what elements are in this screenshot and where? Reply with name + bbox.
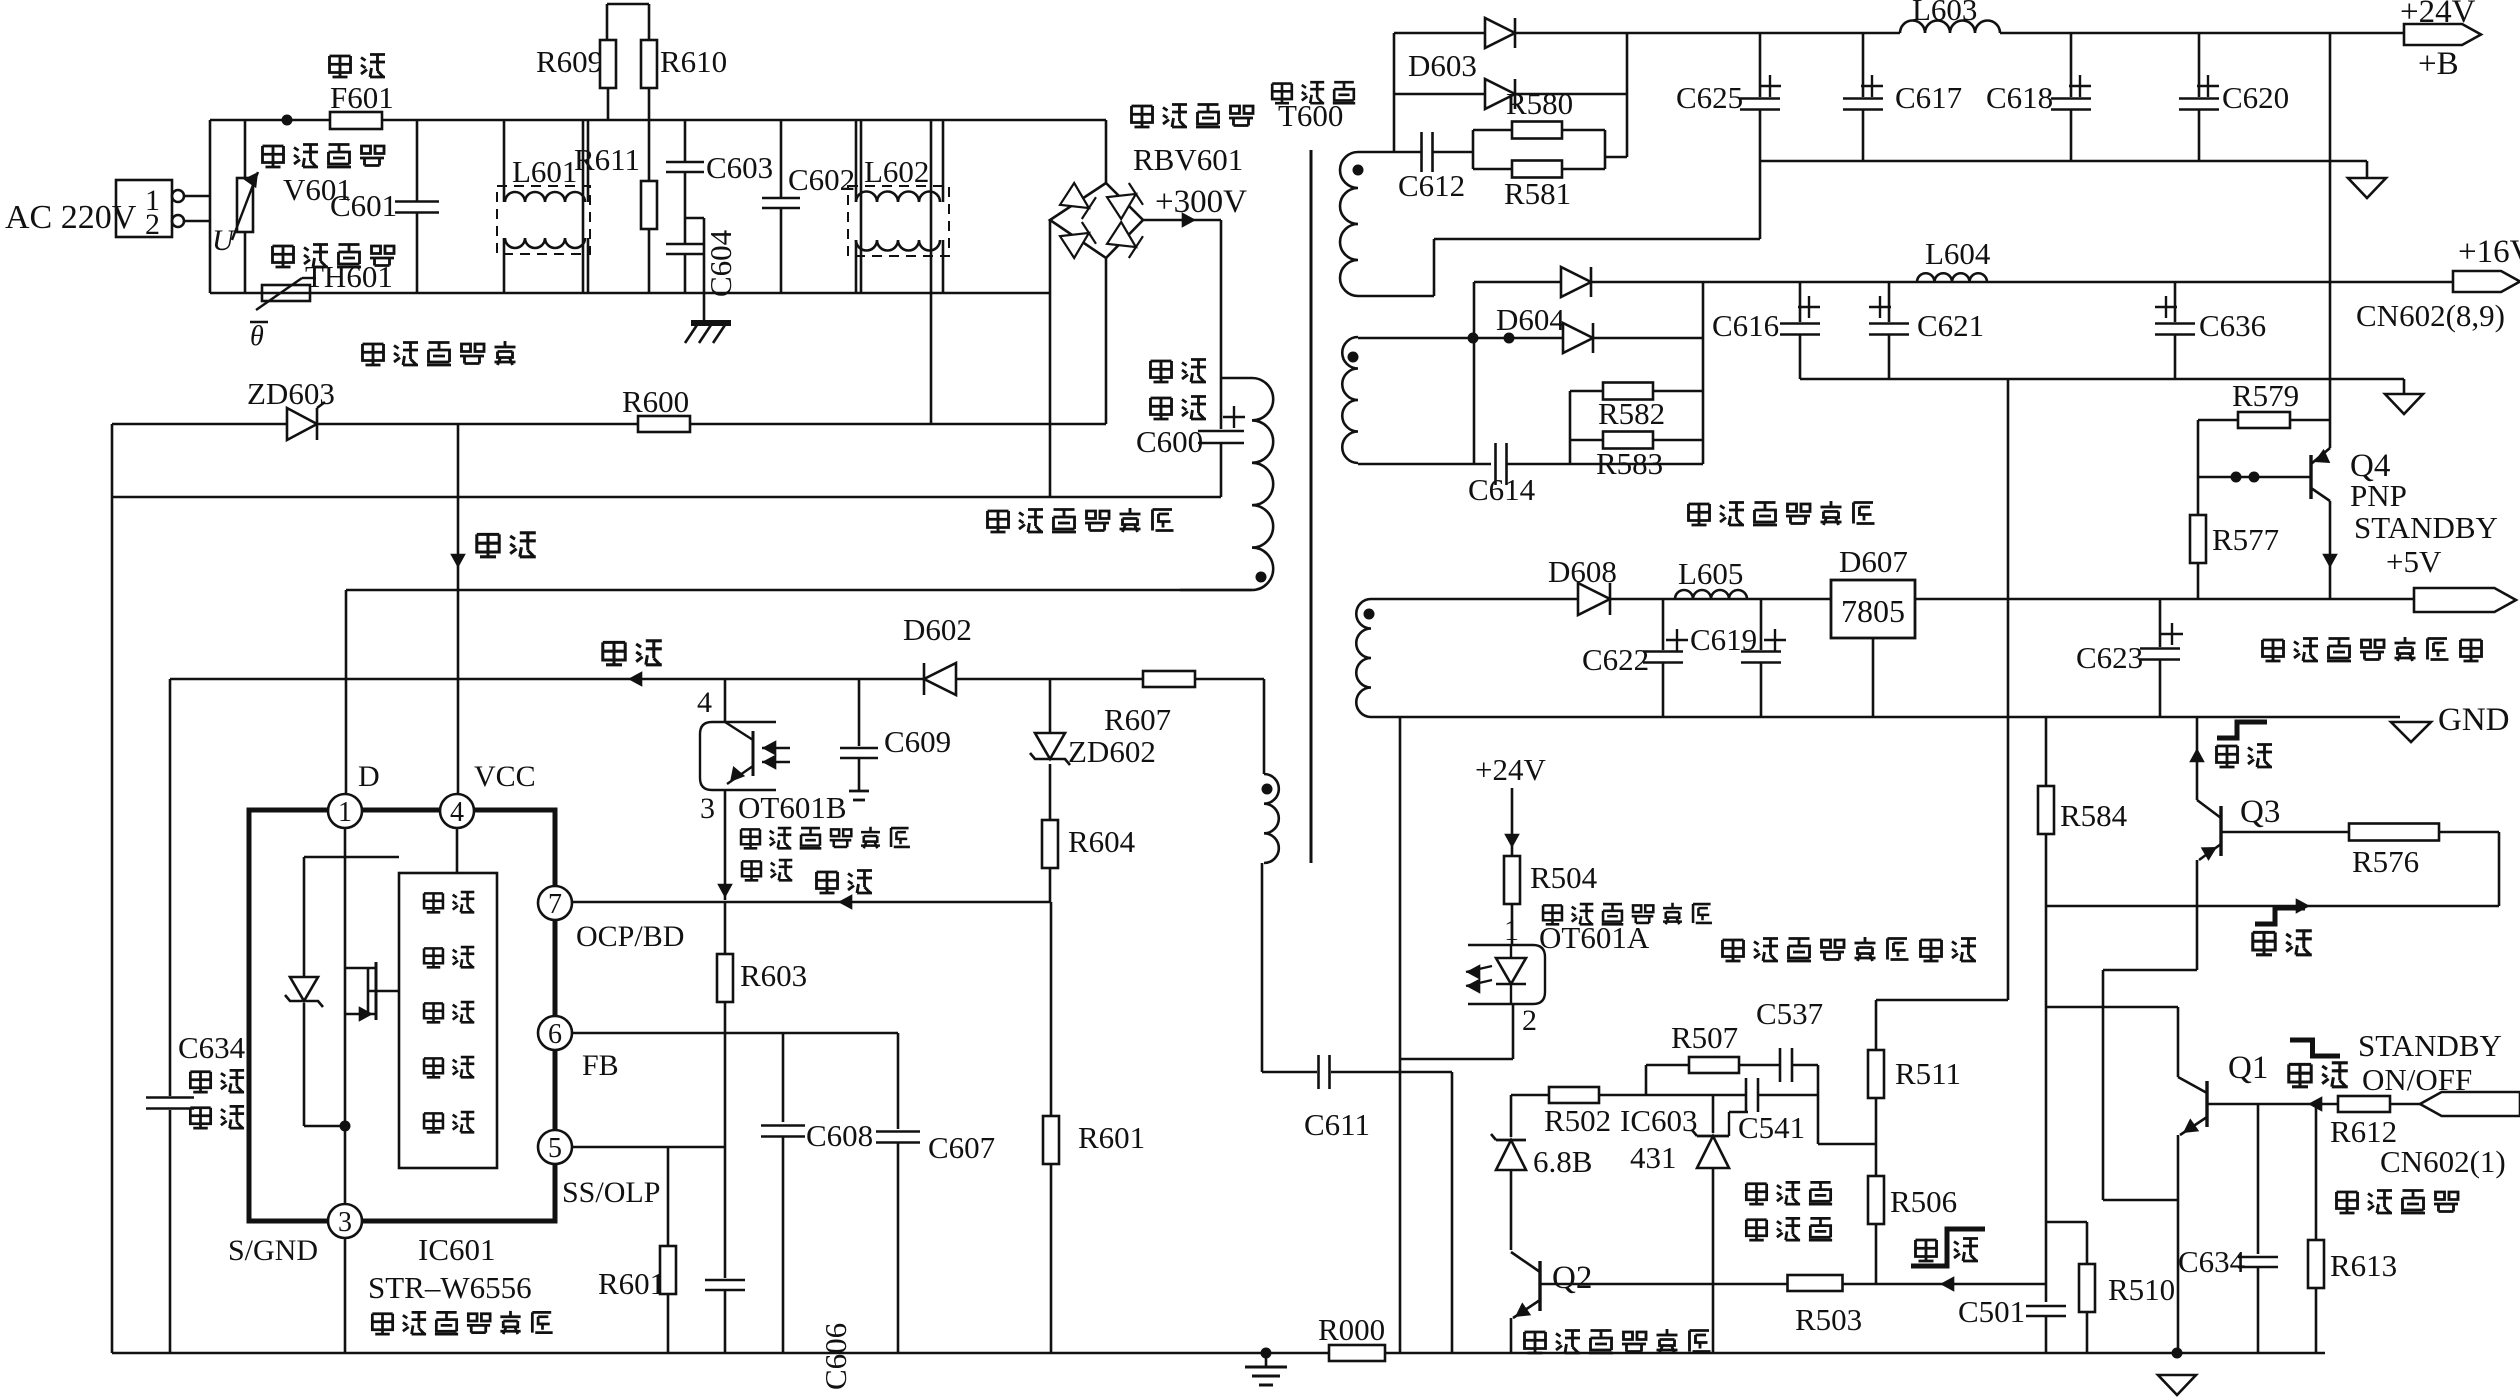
svg-text:VCC: VCC (474, 760, 536, 793)
wire bridge top feed (1105, 120, 1108, 183)
label 开关 R503 (1911, 1229, 1985, 1266)
capacitor C541 (1738, 1078, 1805, 1145)
label 取样误 差放大 (1746, 1182, 1832, 1240)
svg-text:R576: R576 (2352, 844, 2419, 879)
resistor R506 (1868, 1176, 1957, 1283)
resistor R503 (1788, 1275, 1863, 1337)
varistor V601 (232, 120, 258, 293)
svg-text:R603: R603 (740, 958, 807, 993)
resistor R603 (717, 902, 807, 1033)
svg-text:+24V: +24V (1475, 752, 1546, 787)
IC601 internal wires (304, 828, 457, 1204)
wire bridge out +300V (1143, 212, 1221, 228)
inductor L601 common mode choke (497, 120, 590, 293)
wire +300V down (1220, 220, 1223, 429)
resistor R601 right (1043, 902, 1145, 1353)
capacitor C600 (1136, 406, 1245, 497)
svg-text:CN602(1): CN602(1) (2380, 1144, 2506, 1179)
resistor R511 (1868, 1000, 1961, 1176)
svg-text:OCP/BD: OCP/BD (576, 920, 684, 953)
svg-text:FB: FB (582, 1049, 619, 1082)
svg-text:R609: R609 (536, 44, 603, 79)
junction dot Q1 emitter gnd (2172, 1348, 2183, 1359)
svg-text:+B: +B (2418, 46, 2459, 82)
label 二次整流滤波 (1689, 501, 1875, 525)
capacitor C501 (1958, 1294, 2066, 1353)
transistor Q3 (2197, 794, 2280, 970)
label 启动 (477, 533, 536, 557)
IC601 pin 4 (440, 760, 536, 828)
svg-text:C634: C634 (178, 1030, 246, 1065)
connector CN602(1) (2380, 1092, 2520, 1179)
svg-text:C614: C614 (1468, 472, 1536, 507)
svg-text:S/GND: S/GND (228, 1234, 318, 1267)
svg-text:SS/OLP: SS/OLP (562, 1176, 660, 1209)
svg-text:C602: C602 (788, 162, 855, 197)
svg-text:C604: C604 (703, 229, 738, 297)
svg-text:L604: L604 (1925, 236, 1991, 271)
connector +24V +B (2400, 0, 2481, 82)
svg-text:7: 7 (548, 889, 562, 920)
wire D603 left vertical (1393, 33, 1396, 152)
wire R609 R610 top link (607, 4, 649, 40)
svg-text:ZD602: ZD602 (1068, 734, 1156, 769)
svg-text:R506: R506 (1890, 1184, 1957, 1219)
svg-text:C603: C603 (706, 150, 773, 185)
capacitor C636 (2155, 282, 2266, 379)
resistor R610 (641, 40, 727, 181)
label OT601B (738, 790, 847, 825)
wire R510 branch (2046, 1222, 2087, 1264)
svg-text:T600: T600 (1278, 98, 1343, 133)
label D604 (1496, 302, 1565, 337)
capacitor C604 (666, 218, 704, 320)
wire Q3 emitter path (2103, 970, 2197, 1200)
svg-text:STANDBY: STANDBY (2358, 1028, 2502, 1063)
wire +24V rail y33 (1627, 32, 2404, 35)
wire supply line y679 (170, 671, 1264, 687)
svg-text:C541: C541 (1738, 1110, 1805, 1145)
fuse F601 (330, 80, 394, 129)
svg-text:R577: R577 (2212, 522, 2279, 557)
label 开关 mid (2253, 908, 2312, 955)
label 滤波电容 (1151, 360, 1207, 420)
svg-text:D604: D604 (1496, 302, 1565, 337)
svg-text:C618: C618 (1986, 80, 2053, 115)
inductor L602 common mode choke (848, 120, 949, 293)
wire D604 left vertical (1473, 282, 1476, 464)
wire y1007 link (2046, 1006, 2178, 1009)
transformer secondary winding 2 (1342, 337, 1358, 463)
wire x346 down to IC pin1 (345, 590, 348, 795)
diode D604 lower (1358, 323, 1703, 353)
ground triangle 16V section (2385, 394, 2423, 414)
wire w1 bottom return (1358, 161, 1760, 296)
resistor R600 (622, 384, 690, 432)
wire left bus x112 (111, 424, 114, 1353)
svg-text:Q3: Q3 (2240, 794, 2280, 830)
wire y424 line (112, 423, 1106, 426)
wire OCP line y902 (571, 894, 1051, 910)
capacitor C616 (1712, 282, 1820, 379)
junction dot bottom gnd (1261, 1348, 1272, 1359)
svg-text:TH601: TH601 (305, 259, 393, 294)
svg-text:C623: C623 (2076, 640, 2143, 675)
IC601 internal zener (285, 977, 323, 1007)
label 待机控制 (2337, 1191, 2459, 1214)
svg-text:C600: C600 (1136, 424, 1203, 459)
svg-text:1: 1 (1504, 914, 1519, 947)
svg-text:R604: R604 (1068, 824, 1136, 859)
label +300V (1155, 184, 1247, 220)
wire OT601A pin2 (1400, 1004, 1513, 1059)
label 电源厚膜电路 (372, 1311, 552, 1334)
svg-text:R601: R601 (1078, 1120, 1145, 1155)
capacitor C619 (1666, 599, 1786, 717)
label 稳压 (742, 860, 792, 880)
transformer core (1310, 150, 1313, 863)
svg-text:R584: R584 (2060, 798, 2128, 833)
transistor Q2 (1511, 1252, 1592, 1353)
wire FB line y1033 (571, 1032, 898, 1035)
IC601 inner block (399, 873, 497, 1168)
capacitor C606 (705, 1280, 853, 1390)
resistor R612 (2330, 1096, 2397, 1149)
label D603 (1408, 48, 1477, 83)
wire R507 line y1065 (1646, 1065, 1818, 1095)
inductor L603 (1900, 0, 2000, 33)
label V601 (283, 172, 352, 207)
svg-text:431: 431 (1630, 1140, 1677, 1175)
svg-text:IC601: IC601 (418, 1232, 496, 1267)
junction dot fuse node (282, 115, 293, 126)
IC601 pin 3 (228, 1204, 362, 1267)
IC601 pin 7 (538, 886, 684, 953)
svg-text:C621: C621 (1917, 308, 1984, 343)
diode D603 lower (1394, 79, 1627, 109)
svg-text:4: 4 (697, 686, 712, 719)
svg-text:R502: R502 (1544, 1103, 1611, 1138)
label 开关 Q3 top (2217, 722, 2273, 767)
capacitor C621 (1869, 282, 1984, 379)
wire Q2 base line y1283 (1540, 1276, 2046, 1292)
wire startup x458 (450, 424, 466, 795)
IC601 pin3 down (344, 1238, 347, 1353)
svg-text:R507: R507 (1671, 1020, 1738, 1055)
capacitor C634 right (2178, 1104, 2278, 1353)
wire x1627 vertical (1626, 33, 1629, 157)
label IC603 431 (1620, 1103, 1698, 1175)
bridge rectifier RBV601 (1050, 105, 1253, 259)
wire +16V lower rail y379 (1800, 379, 2404, 394)
resistor R613 (2308, 1104, 2397, 1353)
capacitor C634 left (146, 1030, 246, 1128)
label 待机副电源切换 (2263, 637, 2482, 661)
IC601 pin 1 (328, 760, 380, 828)
label 稳压光耦合器 A (1543, 903, 1712, 925)
svg-text:D603: D603 (1408, 48, 1477, 83)
wire y497 return (112, 496, 1221, 499)
wire AC pins to bus (184, 120, 210, 293)
svg-text:L605: L605 (1678, 556, 1743, 591)
label pin2 OT601A (1522, 1004, 1537, 1037)
svg-text:R579: R579 (2232, 378, 2299, 413)
svg-text:L602: L602 (864, 154, 929, 189)
IC601 pin 6 (538, 1016, 619, 1082)
wire box to x1627 (1605, 156, 1627, 159)
label fuse 熔丝 (330, 55, 386, 78)
label U (212, 224, 236, 257)
capacitor C601 (330, 120, 439, 293)
svg-text:C607: C607 (928, 1130, 995, 1165)
resistor R502 (1544, 1087, 1611, 1138)
label 市电整流滤波 (988, 508, 1174, 532)
wire Q3 collector (2189, 717, 2205, 800)
ground triangle 24V section (2348, 178, 2386, 198)
svg-text:D607: D607 (1839, 544, 1908, 579)
wire GND rail y717 (1371, 716, 2400, 719)
resistor R580 box (1473, 86, 1605, 178)
svg-text:R511: R511 (1895, 1056, 1961, 1091)
label STANDBY ON/OFF (2358, 1028, 2502, 1097)
resistor R581 label (1504, 176, 1571, 211)
capacitor C620 (2179, 33, 2289, 161)
svg-text:RBV601: RBV601 (1133, 142, 1243, 177)
wire +24V lower rail y161 (1760, 161, 2367, 178)
wire x725 mid (724, 1033, 727, 1278)
wire +5V line y599 (1371, 598, 2414, 601)
label 抗干扰电路 (363, 341, 516, 365)
resistor R504 (1504, 788, 1598, 945)
resistor R582 (1570, 383, 1703, 441)
label 反馈 (817, 871, 873, 894)
transformer aux winding (1262, 679, 1279, 1072)
label STANDBY +5V (2354, 510, 2498, 579)
inductor L605 (1675, 556, 1747, 599)
svg-text:R600: R600 (622, 384, 689, 419)
resistor R000 (1318, 1312, 1385, 1361)
svg-text:C634: C634 (2178, 1244, 2246, 1279)
connector +16V (2356, 234, 2520, 333)
svg-text:3: 3 (700, 792, 715, 825)
svg-text:C608: C608 (806, 1118, 873, 1153)
resistor R611 (574, 142, 657, 293)
transistor Q4 (2311, 448, 2407, 599)
svg-text:C612: C612 (1398, 168, 1465, 203)
ground small C609 (849, 791, 869, 800)
label 压敏电阻 (263, 145, 385, 168)
svg-text:R601: R601 (598, 1266, 665, 1301)
diode D603 upper (1394, 18, 1627, 48)
svg-text:IC603: IC603 (1620, 1103, 1698, 1138)
wire x1452 down (1451, 1072, 1454, 1353)
svg-text:OT601A: OT601A (1539, 920, 1650, 955)
resistor R607 (1104, 671, 1195, 737)
IC601 internal mosfet (345, 962, 399, 1022)
resistor R577 (2190, 420, 2279, 599)
wire bottom rail y293 (210, 292, 1050, 295)
ground chassis C604 (685, 229, 738, 343)
svg-text:6: 6 (548, 1019, 562, 1050)
resistor R609 (536, 40, 616, 120)
svg-text:GND: GND (2438, 702, 2510, 738)
inductor L604 (1917, 236, 1991, 282)
wire left bus x170 (169, 679, 172, 1353)
svg-text:2: 2 (145, 208, 160, 241)
svg-text:R504: R504 (1530, 860, 1598, 895)
svg-text:+5V: +5V (2386, 544, 2442, 579)
svg-text:U: U (212, 224, 236, 257)
capacitor C537 (1756, 996, 1823, 1082)
label 供电 (603, 641, 662, 665)
capacitor C622 (1582, 599, 1683, 717)
ground triangle GND (2391, 702, 2510, 742)
label 待机降压控制 (1525, 1329, 1711, 1353)
diode D608 (1548, 554, 1617, 615)
svg-text:Q2: Q2 (1552, 1260, 1592, 1296)
wire w1 top line (1358, 151, 1422, 154)
wire bottom rail y1353 (112, 1352, 2325, 1355)
capacitor C625 (1676, 33, 1781, 161)
svg-text:C501: C501 (1958, 1294, 2025, 1329)
svg-text:Q1: Q1 (2228, 1050, 2268, 1086)
transformer secondary winding 1 (1340, 152, 1364, 296)
svg-text:R613: R613 (2330, 1248, 2397, 1283)
svg-text:C606: C606 (818, 1323, 853, 1390)
wire top rail y120 (210, 119, 1106, 122)
svg-text:C616: C616 (1712, 308, 1779, 343)
zener ZD602 (1030, 679, 1156, 820)
connector STANDBY +5V (2414, 588, 2516, 612)
wire block left edge (582, 120, 585, 293)
label 开关 Q1 (2289, 1040, 2348, 1087)
label IC601 (418, 1232, 496, 1267)
capacitor C609 (840, 679, 951, 791)
optocoupler OT601B (697, 679, 790, 900)
svg-text:D: D (358, 760, 380, 793)
wire block right edge (860, 120, 863, 293)
svg-text:D608: D608 (1548, 554, 1617, 589)
svg-text:F601: F601 (330, 80, 394, 115)
svg-text:+16V: +16V (2458, 234, 2520, 270)
label STR-W6556 (368, 1270, 532, 1305)
svg-text:R580: R580 (1506, 86, 1573, 121)
svg-text:OT601B: OT601B (738, 790, 847, 825)
svg-text:STANDBY: STANDBY (2354, 510, 2498, 545)
transformer primary winding (1180, 378, 1273, 590)
connector AC input (116, 180, 184, 241)
svg-text:4: 4 (450, 797, 464, 828)
svg-text:C622: C622 (1582, 642, 1649, 677)
svg-text:C601: C601 (330, 188, 397, 223)
node AC 220V input label (5, 199, 137, 236)
capacitor C608 (761, 1033, 873, 1353)
svg-text:R607: R607 (1104, 702, 1171, 737)
svg-text:R581: R581 (1504, 176, 1571, 211)
svg-text:+300V: +300V (1155, 184, 1247, 220)
svg-text:7805: 7805 (1841, 593, 1905, 629)
wire R502 line y1095 (1511, 1065, 1876, 1144)
wire x1703 vertical (1702, 282, 1705, 464)
IC601 pin 5 (538, 1130, 660, 1209)
svg-text:CN602(8,9): CN602(8,9) (2356, 298, 2505, 333)
svg-text:L601: L601 (512, 154, 577, 189)
shunt reg IC603 431 (1692, 1095, 1748, 1353)
svg-text:R000: R000 (1318, 1312, 1385, 1347)
wire x931 down (930, 120, 933, 424)
svg-text:5: 5 (548, 1133, 562, 1164)
resistor R579 (2198, 378, 2330, 428)
resistor R510 (2079, 1264, 2175, 1353)
capacitor C603 (666, 120, 773, 241)
transformer secondary winding 3 (1356, 599, 1374, 717)
resistor R584 (2038, 717, 2128, 1302)
svg-text:C611: C611 (1304, 1107, 1370, 1142)
resistor R604 (1042, 820, 1136, 902)
label +24V R504 (1475, 752, 1546, 787)
wire +24V feed x2330 (2329, 33, 2332, 448)
diode D602 (903, 612, 972, 695)
resistor R601 left (598, 1147, 676, 1353)
svg-text:R510: R510 (2108, 1272, 2175, 1307)
svg-text:PNP: PNP (2350, 478, 2407, 513)
capacitor C623 (2076, 599, 2183, 717)
label 变压器 T600 (1272, 82, 1355, 133)
capacitor C614 (1358, 443, 1703, 507)
svg-text:R503: R503 (1795, 1302, 1862, 1337)
svg-text:R582: R582 (1598, 396, 1665, 431)
IC601 outline (249, 810, 555, 1221)
svg-text:R610: R610 (660, 44, 727, 79)
zener ZD603 (247, 376, 335, 440)
optocoupler OT601A (1466, 914, 1545, 1004)
ground triangle bottom right (2158, 1375, 2196, 1395)
wire R511 top feed (1876, 999, 2008, 1002)
label 稳压光耦合器 B (741, 827, 910, 849)
svg-text:STR–W6556: STR–W6556 (368, 1270, 532, 1305)
svg-text:C620: C620 (2222, 80, 2289, 115)
transistor Q1 (2178, 1007, 2268, 1353)
svg-text:C636: C636 (2199, 308, 2266, 343)
wire primary bottom to left (346, 589, 1252, 592)
thermistor TH601 (250, 245, 394, 353)
label OT601A (1539, 920, 1650, 955)
svg-text:D602: D602 (903, 612, 972, 647)
wire Q1 base line (2207, 1096, 2420, 1112)
wire bridge left down (1049, 220, 1052, 497)
label 取样误差放大电路 (1723, 937, 1977, 961)
diode D604 upper (1561, 267, 1591, 297)
svg-text:C617: C617 (1895, 80, 1962, 115)
wire Q4 base line (2198, 472, 2311, 483)
wire gnd x2008 (2007, 379, 2010, 1000)
capacitor C607 (876, 1033, 995, 1353)
resistor R576 (2349, 824, 2439, 880)
svg-text:1: 1 (338, 797, 352, 828)
svg-text:2: 2 (1522, 1004, 1537, 1037)
svg-text:C537: C537 (1756, 996, 1823, 1031)
zener 6.8B (1491, 1095, 1592, 1250)
regulator D607 7805 (1831, 544, 1915, 717)
wire Q3 base R576 loop (2046, 832, 2499, 914)
svg-text:θ: θ (250, 321, 264, 352)
capacitor C612 (1398, 132, 1473, 203)
capacitor C602 (762, 120, 855, 293)
resistor R583 (1570, 432, 1703, 482)
svg-text:C625: C625 (1676, 80, 1743, 115)
svg-text:6.8B: 6.8B (1533, 1144, 1592, 1179)
svg-text:C609: C609 (884, 724, 951, 759)
